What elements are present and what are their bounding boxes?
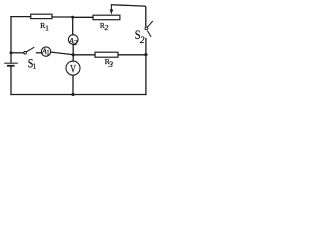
wire right edge down to bottom-right corner [145,55,147,95]
wire V to bottom edge [72,75,74,94]
ammeter A1 [41,47,51,57]
battery (cell) [4,63,18,66]
wire A2 to middle junction [72,44,74,55]
svg-text:2: 2 [105,23,109,32]
wire bottom edge [11,94,146,96]
wire top-right: wiper feed to S2 [111,5,145,26]
node: middle junction [72,53,75,56]
svg-text:2: 2 [140,35,145,45]
node: top junction [71,16,74,19]
wire battery bottom to bottom-left corner [10,67,12,95]
wire R1 to top junction [52,16,73,18]
wire R3 to right junction [118,54,146,56]
wire middle: left junction to S1 [11,52,24,54]
wire right: S2 stub to right junction [145,39,147,55]
wire S1 contact to A1 [37,52,42,54]
wire A1 to middle junction [51,52,73,55]
wire left junction to battery top plate [10,53,12,63]
svg-text:2: 2 [74,38,78,47]
svg-text:V: V [70,63,76,75]
rheostat wiper arrow [110,5,114,15]
svg-text:1: 1 [45,23,49,32]
node: left junction [10,51,13,54]
node: right junction [144,53,147,56]
switch S1 [24,47,34,54]
voltmeter V [66,61,80,75]
wire middle junction to R3 [73,54,95,56]
wire top junction to R2 [73,16,93,18]
ammeter A2 [68,35,78,48]
node: bottom junction [71,93,74,96]
wire top junction down to A2 [72,17,74,35]
resistor R1 [31,14,52,18]
resistor R3 [95,52,118,57]
wire middle junction to V [72,55,74,61]
svg-text:1: 1 [46,49,50,57]
switch S2 [145,21,153,37]
wire left edge top [10,17,12,53]
svg-text:1: 1 [33,62,37,70]
svg-text:3: 3 [108,59,114,69]
wire top-left: corner to R1 [11,16,31,18]
resistor R2 (rheostat) [93,15,120,20]
